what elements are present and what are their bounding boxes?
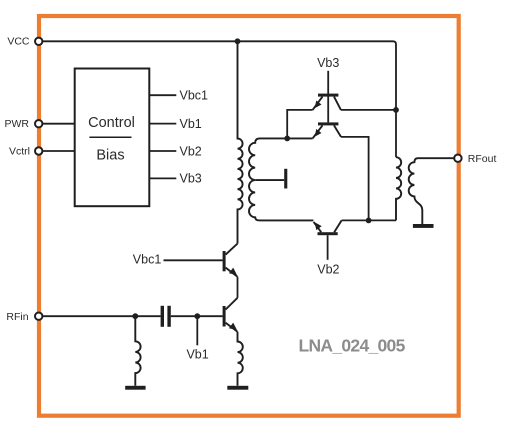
svg-text:Vb3: Vb3 — [180, 172, 202, 186]
pin Vb2 of control block — [149, 150, 176, 152]
svg-text:Bias: Bias — [96, 147, 124, 163]
node PWR terminal — [35, 120, 42, 127]
inductor L1 shunt at RFin — [135, 316, 140, 386]
svg-text:Vb3: Vb3 — [317, 56, 339, 70]
wire Q5 base — [327, 235, 329, 260]
svg-text:PWR: PWR — [5, 118, 30, 130]
svg-text:Vb1: Vb1 — [186, 348, 208, 362]
svg-text:Vctrl: Vctrl — [9, 146, 30, 158]
svg-text:LNA_024_005: LNA_024_005 — [299, 336, 406, 356]
node RFin terminal — [35, 313, 42, 320]
svg-text:Vbc1: Vbc1 — [180, 89, 209, 103]
transistor Q1 — [223, 306, 226, 327]
node RFout terminal — [454, 155, 461, 162]
transformer T2 secondary winding — [409, 158, 455, 224]
control bias block U1 — [75, 69, 150, 207]
svg-text:Vb1: Vb1 — [180, 117, 202, 131]
wire Vb3 to bases of Q3 Q4 — [327, 71, 329, 123]
transistor Q2 — [223, 251, 226, 271]
pin Vb1 of control block — [149, 123, 176, 125]
transformer T1 secondary winding — [249, 138, 313, 220]
wire PWR to control block — [42, 123, 74, 125]
wire Q1 collector to Q2 emitter — [237, 277, 239, 298]
svg-text:RFin: RFin — [6, 311, 28, 323]
center tap terminator bar — [284, 169, 287, 189]
svg-text:Vbc1: Vbc1 — [133, 252, 162, 266]
svg-text:Control: Control — [88, 115, 135, 131]
ground for L1 — [125, 386, 145, 390]
wire VCC rail — [42, 41, 396, 157]
wire Vbc1 to Q2 base — [164, 259, 223, 261]
junction VCC rail to Q3 collector node B — [393, 107, 399, 113]
junction node C on secondary top — [284, 136, 290, 142]
svg-text:Vb2: Vb2 — [180, 145, 202, 159]
inductor L3 emitter degeneration — [238, 332, 243, 386]
transformer T1 primary winding — [238, 41, 243, 243]
wire Vctrl to control block — [42, 150, 74, 152]
wire Q3 emitter to T1 secondary top — [287, 110, 312, 138]
capacitor C1 — [161, 306, 164, 327]
transistor Q3 — [318, 94, 338, 97]
pin Vbc1 of control block — [149, 94, 176, 96]
svg-text:VCC: VCC — [7, 36, 30, 48]
wire Q3 collector to node B — [341, 109, 396, 111]
ground for T2 secondary — [413, 224, 434, 228]
svg-text:Vb2: Vb2 — [317, 262, 339, 276]
node VCC terminal — [35, 38, 42, 45]
svg-text:RFout: RFout — [468, 153, 497, 165]
wire Q5 collector to T2 primary bottom — [342, 219, 396, 221]
transistor Q5 — [318, 232, 338, 235]
junction node F — [194, 313, 200, 319]
wire Q4 collector down to node D — [341, 137, 369, 221]
transformer T2 primary winding — [396, 157, 401, 220]
wire T1 secondary center tap — [255, 179, 284, 181]
node Vctrl terminal — [35, 147, 42, 154]
wire RFin to capacitor C1 — [42, 315, 160, 317]
pin Vb3 of control block — [149, 177, 176, 179]
junction on VCC rail node A — [235, 38, 241, 44]
junction node D — [366, 218, 372, 224]
ground for L3 — [227, 386, 248, 390]
wire Vb1 stub — [196, 316, 198, 345]
junction node E — [132, 313, 138, 319]
transistor Q4 — [318, 122, 338, 125]
wire C1 to Q1 base — [171, 315, 223, 317]
